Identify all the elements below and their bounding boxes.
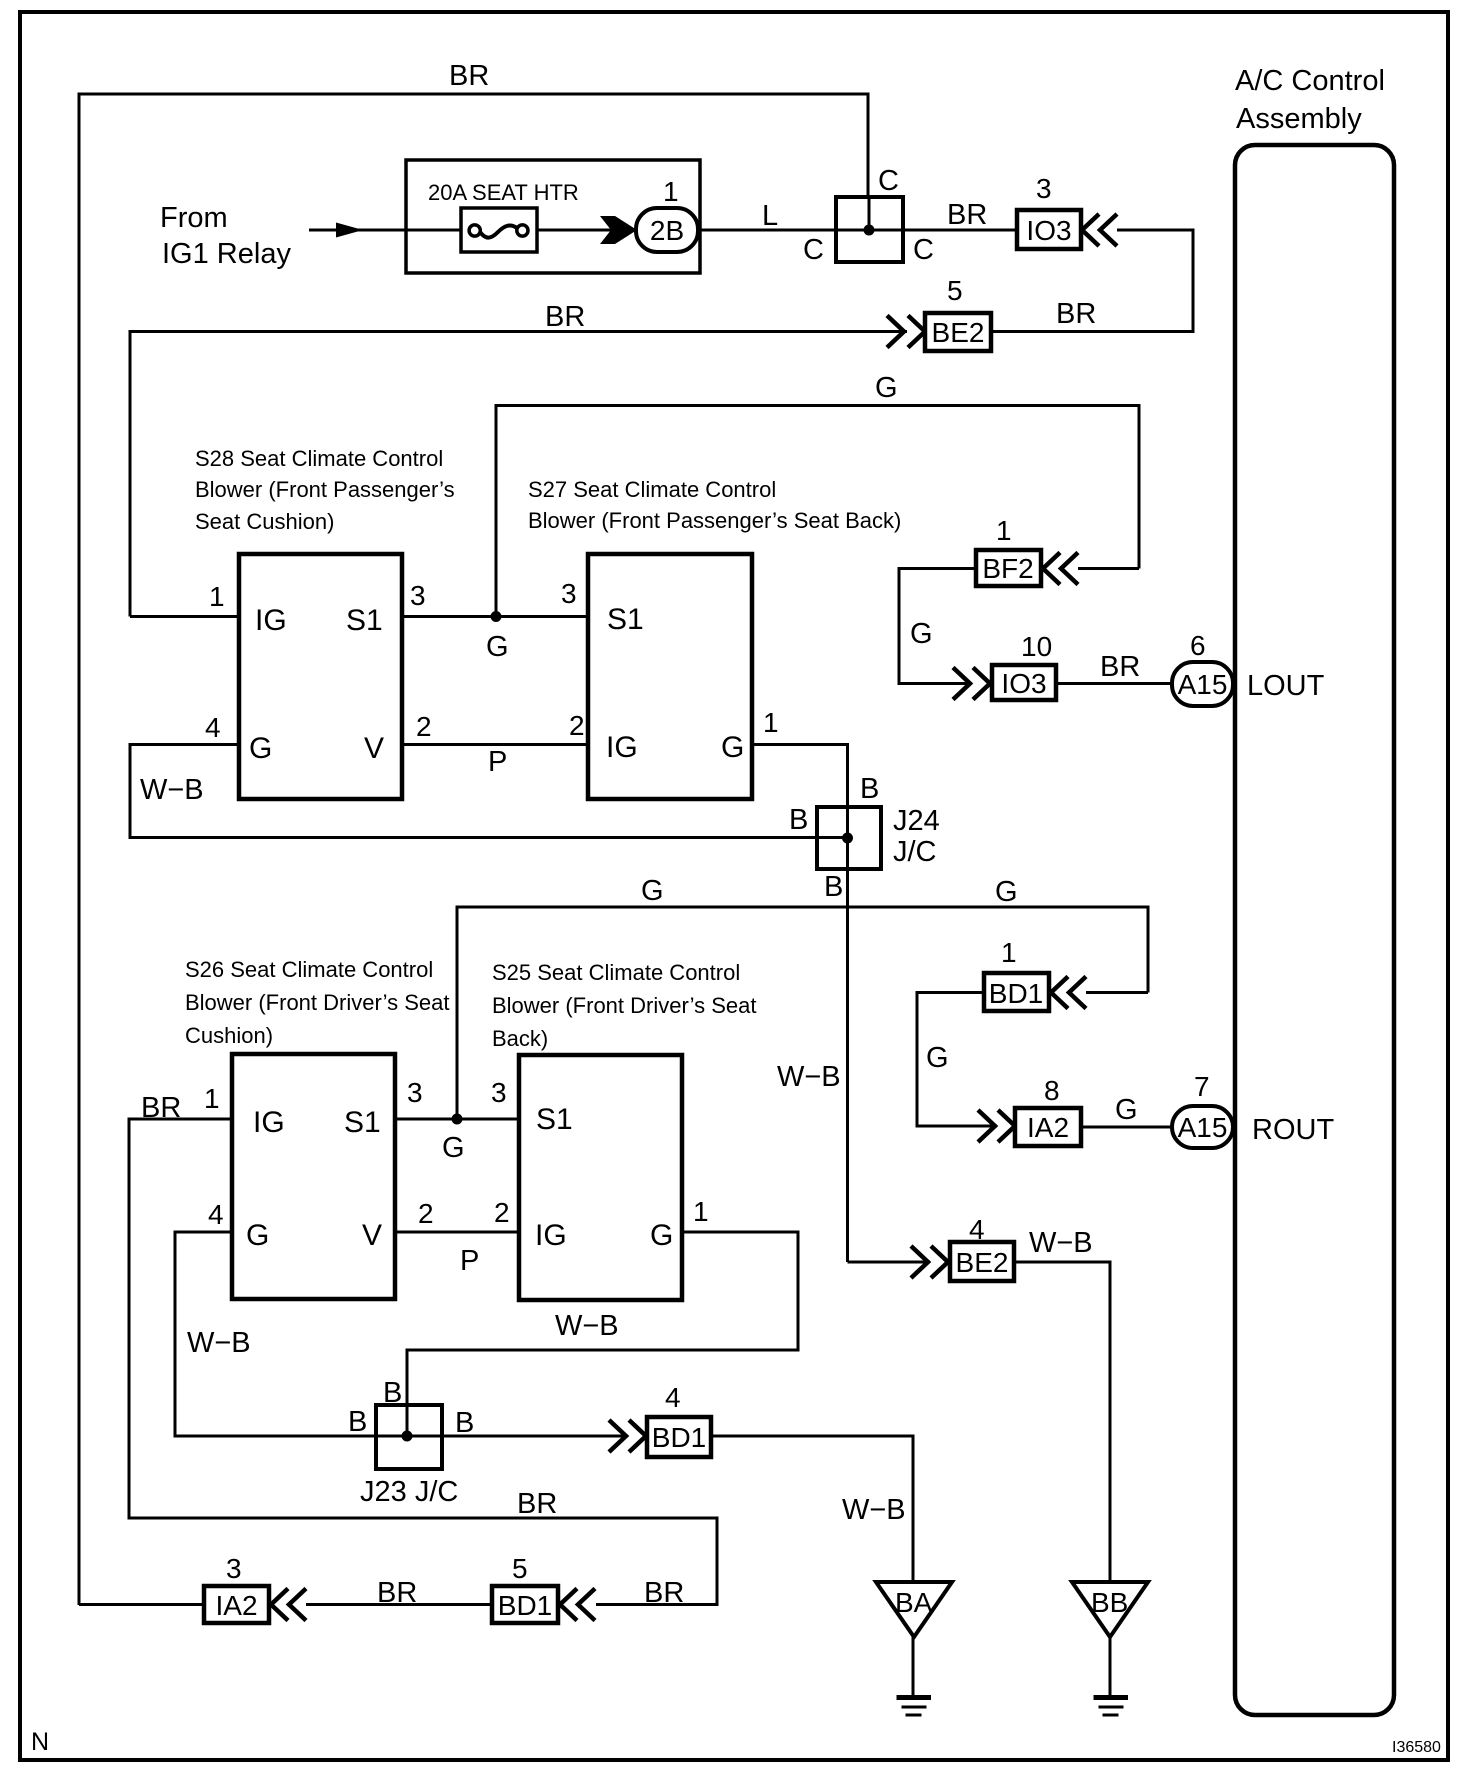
wire: S27 G pin1 right and down to J24 bbox=[752, 745, 848, 1263]
wire: S26 S1 pin3 to S25 pin3 with junction bbox=[395, 1118, 519, 1121]
junction box J23 bbox=[376, 1405, 442, 1469]
svg-text:W−B: W−B bbox=[140, 774, 204, 806]
junction box J24 bbox=[817, 807, 881, 869]
svg-text:B: B bbox=[455, 1407, 474, 1439]
svg-text:5: 5 bbox=[512, 1553, 528, 1584]
blower S28 box bbox=[239, 554, 402, 799]
svg-text:P: P bbox=[460, 1245, 479, 1277]
wire: S26 G pin4 down to J23 bbox=[175, 1232, 376, 1436]
svg-text:B: B bbox=[383, 1377, 402, 1409]
svg-text:Blower (Front Passenger’s Seat: Blower (Front Passenger’s Seat Back) bbox=[528, 508, 901, 533]
wire: S28 G pin4 down and to J24 bbox=[130, 745, 848, 838]
svg-text:3: 3 bbox=[491, 1077, 507, 1108]
svg-text:Blower (Front Driver’s Seat: Blower (Front Driver’s Seat bbox=[492, 993, 756, 1018]
ground BA bbox=[876, 1582, 952, 1637]
svg-text:3: 3 bbox=[407, 1077, 423, 1108]
wire: G2 net from S1 junction (lower) to BD1 bbox=[457, 907, 1148, 1119]
blower S26 box bbox=[232, 1054, 395, 1299]
chevrons into IO3 (10) bbox=[953, 668, 990, 700]
chevrons into BE2 bbox=[887, 316, 925, 348]
svg-text:G: G bbox=[641, 875, 664, 907]
svg-text:5: 5 bbox=[947, 275, 963, 306]
svg-text:1: 1 bbox=[693, 1196, 709, 1227]
svg-text:S1: S1 bbox=[346, 604, 383, 637]
wire: into S26 pin1 (BR) then down to BR bottom wire bbox=[129, 1119, 717, 1605]
wire: BF2 left leg down to IO3 row bbox=[899, 569, 976, 684]
fat arrow into 2B bbox=[600, 216, 637, 244]
svg-text:BR: BR bbox=[377, 1577, 417, 1609]
svg-text:W−B: W−B bbox=[555, 1310, 619, 1342]
wire: S28 V pin2 to S27 IG pin2 bbox=[402, 743, 588, 746]
bottom BR row: IA2 (3) and BD1 (5) bbox=[79, 1603, 204, 1606]
wire: S28 S1 pin3 to S27 pin3 with junction bbox=[402, 615, 588, 618]
svg-text:BD1: BD1 bbox=[498, 1590, 552, 1621]
wire: top BR horizontal from left rail to C junction bbox=[79, 94, 868, 1605]
svg-text:BD1: BD1 bbox=[652, 1422, 706, 1453]
svg-text:BE2: BE2 bbox=[932, 317, 985, 348]
svg-text:G: G bbox=[926, 1042, 949, 1074]
svg-text:BR: BR bbox=[545, 301, 585, 333]
svg-text:Blower (Front Driver’s Seat: Blower (Front Driver’s Seat bbox=[185, 990, 449, 1015]
wire: IO3 to right rail down to BE2 row bbox=[991, 230, 1193, 332]
svg-text:BD1: BD1 bbox=[989, 978, 1043, 1009]
svg-text:1: 1 bbox=[1001, 937, 1017, 968]
wire: S25 G pin1 right, down, left to J23 bbox=[407, 1232, 798, 1436]
wire: G1 net from S1 junction up and right to BF2 bbox=[496, 406, 1139, 617]
svg-text:Assembly: Assembly bbox=[1236, 103, 1362, 135]
svg-text:4: 4 bbox=[665, 1382, 681, 1413]
svg-text:S1: S1 bbox=[536, 1103, 573, 1136]
svg-text:1: 1 bbox=[996, 515, 1012, 546]
svg-text:S1: S1 bbox=[607, 603, 644, 636]
svg-text:G: G bbox=[875, 372, 898, 404]
svg-text:J23 J/C: J23 J/C bbox=[360, 1476, 458, 1508]
fuse symbol bbox=[461, 208, 537, 252]
svg-text:3: 3 bbox=[561, 578, 577, 609]
svg-text:3: 3 bbox=[410, 580, 426, 611]
svg-text:8: 8 bbox=[1044, 1075, 1060, 1106]
svg-text:BR: BR bbox=[1056, 298, 1096, 330]
svg-text:7: 7 bbox=[1194, 1071, 1210, 1102]
wire IO3 to A15 bbox=[1056, 682, 1172, 685]
chevrons after BD1 (5) bbox=[560, 1589, 595, 1621]
svg-text:10: 10 bbox=[1021, 631, 1052, 662]
svg-text:20A SEAT HTR: 20A SEAT HTR bbox=[428, 180, 579, 205]
chevrons after BF2 bbox=[1043, 553, 1078, 585]
svg-text:L: L bbox=[762, 200, 778, 232]
svg-text:BR: BR bbox=[141, 1092, 181, 1124]
wire: BE2 row from left vertical bbox=[130, 332, 907, 617]
svg-text:3: 3 bbox=[1036, 173, 1052, 204]
svg-text:J/C: J/C bbox=[893, 836, 937, 868]
svg-text:W−B: W−B bbox=[1029, 1227, 1093, 1259]
svg-text:4: 4 bbox=[205, 712, 221, 743]
svg-text:G: G bbox=[650, 1219, 673, 1252]
svg-text:BA: BA bbox=[895, 1587, 933, 1618]
svg-text:G: G bbox=[246, 1219, 269, 1252]
svg-text:LOUT: LOUT bbox=[1247, 670, 1325, 702]
blower S27 box bbox=[588, 554, 752, 799]
svg-text:2: 2 bbox=[569, 710, 585, 741]
svg-text:From: From bbox=[160, 202, 228, 234]
svg-text:B: B bbox=[348, 1406, 367, 1438]
A/C Control Assembly box bbox=[1235, 145, 1394, 1715]
svg-text:3: 3 bbox=[226, 1553, 242, 1584]
svg-text:BF2: BF2 bbox=[982, 553, 1033, 584]
svg-text:IA2: IA2 bbox=[215, 1590, 257, 1621]
svg-text:G: G bbox=[910, 618, 933, 650]
chevrons into BD1 (4) bbox=[609, 1420, 646, 1452]
svg-text:W−B: W−B bbox=[187, 1327, 251, 1359]
svg-text:S25 Seat Climate Control: S25 Seat Climate Control bbox=[492, 960, 740, 985]
svg-text:J24: J24 bbox=[893, 805, 940, 837]
svg-text:G: G bbox=[995, 876, 1018, 908]
svg-text:Back): Back) bbox=[492, 1026, 548, 1051]
svg-text:W−B: W−B bbox=[842, 1494, 906, 1526]
svg-text:6: 6 bbox=[1190, 630, 1206, 661]
svg-text:ROUT: ROUT bbox=[1252, 1114, 1334, 1146]
svg-text:1: 1 bbox=[663, 176, 679, 207]
wire: J23 right to BD1 (4) and to BA ground bbox=[376, 1435, 628, 1438]
svg-text:2: 2 bbox=[416, 711, 432, 742]
svg-text:A15: A15 bbox=[1178, 1112, 1228, 1143]
svg-text:S27 Seat Climate Control: S27 Seat Climate Control bbox=[528, 477, 776, 502]
svg-text:G: G bbox=[721, 731, 744, 764]
svg-text:IO3: IO3 bbox=[1026, 215, 1071, 246]
svg-text:IG: IG bbox=[606, 731, 638, 764]
svg-text:1: 1 bbox=[763, 707, 779, 738]
svg-text:B: B bbox=[824, 871, 843, 903]
svg-text:2: 2 bbox=[418, 1198, 434, 1229]
svg-text:S28 Seat Climate Control: S28 Seat Climate Control bbox=[195, 446, 443, 471]
svg-text:I36580: I36580 bbox=[1392, 1739, 1441, 1756]
svg-text:G: G bbox=[486, 631, 509, 663]
svg-text:G: G bbox=[1115, 1094, 1138, 1126]
svg-text:B: B bbox=[860, 773, 879, 805]
chevrons after BD1 bbox=[1051, 977, 1086, 1009]
wire: IG1 feed into fuse and across to IO3 bbox=[309, 229, 1017, 232]
svg-text:BR: BR bbox=[1100, 651, 1140, 683]
wire: BD1 left leg down to IA2 row bbox=[917, 993, 997, 1127]
svg-text:N: N bbox=[31, 1728, 49, 1756]
svg-text:G: G bbox=[442, 1132, 465, 1164]
blower S25 box bbox=[519, 1055, 682, 1300]
svg-text:P: P bbox=[488, 746, 507, 778]
svg-text:C: C bbox=[803, 234, 824, 266]
chevrons after IO3 bbox=[1082, 214, 1117, 246]
svg-text:BR: BR bbox=[947, 199, 987, 231]
svg-text:A15: A15 bbox=[1178, 669, 1228, 700]
ground BB bbox=[1072, 1582, 1148, 1637]
svg-text:IG: IG bbox=[253, 1106, 285, 1139]
svg-text:BR: BR bbox=[644, 1577, 684, 1609]
svg-text:1: 1 bbox=[204, 1083, 220, 1114]
svg-text:IO3: IO3 bbox=[1001, 668, 1046, 699]
svg-text:2: 2 bbox=[494, 1197, 510, 1228]
wire: S26 V pin2 to S25 IG pin2 bbox=[395, 1231, 519, 1234]
wire: into S28 pin1 bbox=[130, 615, 239, 618]
svg-text:V: V bbox=[364, 732, 384, 765]
svg-text:C: C bbox=[913, 234, 934, 266]
svg-text:V: V bbox=[362, 1219, 382, 1252]
wire: BE2 to BB ground bbox=[1014, 1262, 1110, 1582]
svg-text:W−B: W−B bbox=[777, 1061, 841, 1093]
svg-text:IG1 Relay: IG1 Relay bbox=[162, 238, 291, 270]
chevrons after IA2 (3) bbox=[271, 1589, 306, 1621]
svg-text:S26 Seat Climate Control: S26 Seat Climate Control bbox=[185, 957, 433, 982]
junction box C bbox=[836, 197, 903, 262]
svg-text:4: 4 bbox=[208, 1199, 224, 1230]
svg-text:BR: BR bbox=[449, 60, 489, 92]
arrow: feed direction bbox=[336, 223, 363, 238]
svg-text:Seat Cushion): Seat Cushion) bbox=[195, 509, 334, 534]
svg-text:1: 1 bbox=[209, 581, 225, 612]
chevrons into IA2 (8) bbox=[978, 1110, 1015, 1142]
svg-text:B: B bbox=[789, 804, 808, 836]
svg-text:Blower (Front Passenger’s: Blower (Front Passenger’s bbox=[195, 477, 455, 502]
chevrons into BE2 (4) bbox=[911, 1246, 948, 1278]
svg-text:S1: S1 bbox=[344, 1106, 381, 1139]
svg-text:BE2: BE2 bbox=[956, 1247, 1009, 1278]
svg-text:IG: IG bbox=[535, 1219, 567, 1252]
svg-text:BB: BB bbox=[1091, 1587, 1128, 1618]
wire IA2 to A15 bbox=[1081, 1126, 1172, 1129]
svg-text:Cushion): Cushion) bbox=[185, 1023, 273, 1048]
svg-text:IA2: IA2 bbox=[1027, 1112, 1069, 1143]
fuse holder box 20A SEAT HTR bbox=[406, 160, 700, 273]
wire: J24 leg to BE2 (4) bbox=[848, 1261, 931, 1264]
svg-text:G: G bbox=[249, 732, 272, 765]
svg-text:A/C Control: A/C Control bbox=[1235, 65, 1385, 97]
svg-text:IG: IG bbox=[255, 604, 287, 637]
svg-text:BR: BR bbox=[517, 1488, 557, 1520]
svg-text:2B: 2B bbox=[650, 215, 684, 246]
svg-text:C: C bbox=[878, 165, 899, 197]
